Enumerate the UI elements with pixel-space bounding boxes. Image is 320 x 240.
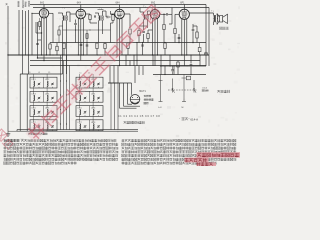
- svg-text:M: M: [182, 107, 184, 109]
- svg-text:6M-T1: 6M-T1: [139, 91, 146, 93]
- svg-text:T6: T6: [29, 72, 31, 74]
- svg-text:L9: L9: [38, 72, 40, 74]
- svg-text:6K4: 6K4: [116, 3, 121, 5]
- svg-text:L1: L1: [80, 72, 82, 74]
- svg-text:”: ”: [188, 117, 189, 121]
- svg-text:C1 C2 C3 C4 C5 C6 C7 C8: C1 C2 C3 C4 C5 C6 C7 C8: [118, 116, 160, 118]
- svg-text:“: “: [179, 117, 180, 121]
- svg-text:6K4: 6K4: [77, 3, 82, 5]
- svg-text:6A2: 6A2: [40, 2, 45, 5]
- svg-text:C5C6: C5C6: [202, 87, 208, 89]
- svg-text:C9: C9: [48, 72, 50, 74]
- svg-text:614-A: 614-A: [190, 117, 198, 121]
- svg-text:L+F: L+F: [158, 107, 162, 109]
- svg-text:6P1: 6P1: [180, 3, 185, 5]
